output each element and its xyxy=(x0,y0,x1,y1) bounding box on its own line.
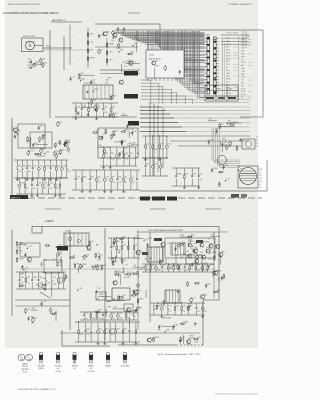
svg-text:C77: C77 xyxy=(135,236,138,238)
svg-text:T53: T53 xyxy=(114,261,117,263)
svg-text:D21: D21 xyxy=(154,163,157,165)
svg-text:C95: C95 xyxy=(158,260,161,262)
svg-text:IC201: IC201 xyxy=(149,55,154,57)
svg-text:Q74: Q74 xyxy=(109,60,112,62)
svg-text:L48: L48 xyxy=(134,43,137,45)
svg-text:Q92: Q92 xyxy=(136,307,139,309)
svg-text:D33: D33 xyxy=(90,50,93,52)
svg-text:C47: C47 xyxy=(195,249,198,251)
svg-text:R92: R92 xyxy=(105,328,108,330)
svg-text:L15: L15 xyxy=(97,106,100,108)
svg-text:0.047: 0.047 xyxy=(32,66,36,68)
svg-text:D51: D51 xyxy=(135,312,138,314)
svg-text:NOTE : markings of printed bo: NOTE : markings of printed boards : "MF-… xyxy=(158,353,201,356)
svg-text:DET: DET xyxy=(241,48,244,50)
svg-text:C52: C52 xyxy=(146,143,149,145)
svg-text:R9: R9 xyxy=(139,250,141,252)
svg-text:330: 330 xyxy=(215,133,218,135)
svg-text:L87: L87 xyxy=(122,113,125,115)
svg-text:2SC2458: 2SC2458 xyxy=(37,366,44,368)
svg-text:R72: R72 xyxy=(99,328,102,330)
svg-text:C58: C58 xyxy=(103,134,106,136)
svg-text:C58: C58 xyxy=(79,288,82,290)
svg-text:T15: T15 xyxy=(206,247,209,249)
svg-text:T57: T57 xyxy=(115,113,118,115)
svg-text:220: 220 xyxy=(49,188,52,190)
svg-text:L15: L15 xyxy=(24,245,27,247)
svg-text:D52: D52 xyxy=(122,272,125,274)
svg-text:T81: T81 xyxy=(121,152,124,154)
svg-text:D32: D32 xyxy=(123,244,126,246)
svg-text:L6: L6 xyxy=(44,134,46,136)
svg-text:C21: C21 xyxy=(83,264,86,266)
svg-text:VR16: VR16 xyxy=(112,95,117,97)
svg-text:47u: 47u xyxy=(187,344,190,346)
svg-text:L88: L88 xyxy=(228,121,231,123)
svg-text:T26: T26 xyxy=(114,258,117,260)
svg-text:L23: L23 xyxy=(163,305,166,307)
svg-text:E/F: E/F xyxy=(90,368,93,370)
svg-text:R89: R89 xyxy=(191,235,194,237)
svg-text:VR55: VR55 xyxy=(45,165,50,167)
svg-text:T66: T66 xyxy=(124,328,127,330)
svg-text:D37: D37 xyxy=(103,265,106,267)
svg-text:MODEL JN-S7000M MUSIC CENTER: MODEL JN-S7000M MUSIC CENTER xyxy=(8,4,41,6)
svg-text:0.047: 0.047 xyxy=(98,318,102,320)
svg-text:MAIN P.C.B: MAIN P.C.B xyxy=(11,196,21,199)
svg-text:D60: D60 xyxy=(123,260,126,262)
svg-text:Q47: Q47 xyxy=(59,277,62,279)
svg-text:0.01: 0.01 xyxy=(161,247,164,249)
svg-text:L42: L42 xyxy=(124,176,127,178)
svg-text:0.01: 0.01 xyxy=(59,283,62,285)
svg-text:VR14: VR14 xyxy=(124,129,128,131)
svg-text:0.047: 0.047 xyxy=(26,142,30,144)
svg-text:12V: 12V xyxy=(259,178,262,180)
svg-text:Q77: Q77 xyxy=(156,247,159,249)
svg-text:C93: C93 xyxy=(58,262,61,264)
svg-text:Q3: Q3 xyxy=(199,173,201,175)
svg-text:T87: T87 xyxy=(100,49,103,51)
svg-text:T33: T33 xyxy=(27,309,30,311)
svg-text:C76: C76 xyxy=(193,253,196,255)
svg-text:C12: C12 xyxy=(36,62,39,64)
svg-text:D61: D61 xyxy=(120,50,123,52)
svg-text:VR93: VR93 xyxy=(51,165,56,167)
svg-text:CN201: CN201 xyxy=(205,35,210,37)
svg-text:Q11: Q11 xyxy=(56,151,59,153)
svg-text:0.01: 0.01 xyxy=(157,330,160,332)
svg-text:R7: R7 xyxy=(134,265,136,267)
svg-text:C89: C89 xyxy=(98,145,101,147)
svg-text:MHz: MHz xyxy=(28,65,32,67)
svg-text:T29: T29 xyxy=(182,242,185,244)
svg-text:T44: T44 xyxy=(130,129,133,131)
svg-text:D80: D80 xyxy=(39,277,42,279)
svg-text:C82: C82 xyxy=(42,58,45,60)
svg-text:T81: T81 xyxy=(136,153,139,155)
svg-text:L75: L75 xyxy=(90,42,93,44)
svg-text:D37: D37 xyxy=(123,140,126,142)
svg-text:AN7145M: AN7145M xyxy=(163,317,171,320)
svg-text:C12: C12 xyxy=(155,305,158,307)
svg-text:L98: L98 xyxy=(38,182,41,184)
svg-text:R30: R30 xyxy=(132,143,135,145)
svg-text:T57: T57 xyxy=(144,259,147,261)
svg-text:● MD-5: ● MD-5 xyxy=(45,219,54,223)
svg-text:C56: C56 xyxy=(76,263,79,265)
svg-text:R49: R49 xyxy=(139,269,142,271)
svg-text:D11: D11 xyxy=(53,277,56,279)
svg-text:T60: T60 xyxy=(90,34,93,36)
svg-text:Q84: Q84 xyxy=(180,235,183,237)
svg-text:VR97: VR97 xyxy=(139,299,144,301)
svg-text:100: 100 xyxy=(56,188,59,190)
svg-text:2SC1815: 2SC1815 xyxy=(54,366,61,368)
svg-text:0.01: 0.01 xyxy=(132,182,135,184)
svg-text:L49: L49 xyxy=(34,165,37,167)
svg-text:C69: C69 xyxy=(144,239,147,241)
svg-text:VR92: VR92 xyxy=(63,165,68,167)
svg-text:VR29: VR29 xyxy=(193,243,198,245)
svg-text:220: 220 xyxy=(124,182,127,184)
svg-text:0.01: 0.01 xyxy=(20,283,23,285)
svg-text:D14: D14 xyxy=(204,294,207,296)
svg-text:L72: L72 xyxy=(155,61,158,63)
svg-text:L88: L88 xyxy=(91,241,94,243)
svg-text:Q40: Q40 xyxy=(207,283,210,285)
svg-text:R25: R25 xyxy=(217,290,220,292)
svg-text:D62: D62 xyxy=(227,178,230,180)
svg-text:L23: L23 xyxy=(85,312,88,314)
svg-text:VR88: VR88 xyxy=(184,322,189,324)
svg-text:0.01: 0.01 xyxy=(27,283,30,285)
svg-text:D72: D72 xyxy=(168,143,171,145)
svg-text:Q68: Q68 xyxy=(104,312,107,314)
svg-text:SCHEMATIC DIAGRAM 2/2: SCHEMATIC DIAGRAM 2/2 xyxy=(229,3,253,6)
svg-text:C81: C81 xyxy=(57,165,60,167)
svg-text:R29: R29 xyxy=(189,305,192,307)
svg-text:R18: R18 xyxy=(108,78,111,80)
svg-text:VR78: VR78 xyxy=(222,138,227,140)
svg-text:DTC114ES: DTC114ES xyxy=(121,366,130,368)
svg-text:R9: R9 xyxy=(112,176,114,178)
svg-text:C20: C20 xyxy=(192,298,195,300)
svg-text:D42: D42 xyxy=(115,131,118,133)
svg-text:C54: C54 xyxy=(209,243,212,245)
svg-text:C46: C46 xyxy=(93,100,96,102)
svg-text:47u: 47u xyxy=(169,311,172,313)
svg-text:VR65: VR65 xyxy=(212,252,217,254)
svg-text:D99: D99 xyxy=(98,310,101,312)
svg-text:R94: R94 xyxy=(20,277,23,279)
svg-text:C74: C74 xyxy=(126,272,129,274)
svg-text:220: 220 xyxy=(125,148,128,150)
svg-text:Q46: Q46 xyxy=(223,142,226,144)
svg-text:T99: T99 xyxy=(123,236,126,238)
svg-text:R89: R89 xyxy=(83,176,86,178)
svg-text:C21: C21 xyxy=(104,106,107,108)
svg-text:T46: T46 xyxy=(118,176,121,178)
svg-text:L79: L79 xyxy=(169,305,172,307)
svg-text:47u: 47u xyxy=(118,159,121,161)
svg-text:CN2: CN2 xyxy=(247,36,250,38)
svg-text:C39: C39 xyxy=(19,251,22,253)
svg-text:R3: R3 xyxy=(180,264,182,266)
svg-text:(MF-870RC-1): (MF-870RC-1) xyxy=(52,20,66,22)
svg-text:VR95: VR95 xyxy=(99,294,104,296)
svg-text:C27: C27 xyxy=(92,80,95,82)
svg-text:D48: D48 xyxy=(18,165,21,167)
svg-text:L47: L47 xyxy=(221,123,224,125)
svg-text:IC301: IC301 xyxy=(65,231,70,233)
svg-text:VR1: VR1 xyxy=(169,264,173,266)
svg-text:D48: D48 xyxy=(112,298,115,300)
svg-text:330: 330 xyxy=(83,259,86,261)
svg-text:D41: D41 xyxy=(138,290,141,292)
svg-text:0.047: 0.047 xyxy=(111,159,115,161)
svg-text:M1: M1 xyxy=(259,184,261,186)
svg-text:R53: R53 xyxy=(128,124,131,126)
svg-text:R98: R98 xyxy=(182,305,185,307)
svg-text:C97: C97 xyxy=(77,176,80,178)
svg-text:Q36: Q36 xyxy=(125,153,128,155)
svg-text:R62: R62 xyxy=(163,264,166,266)
svg-text:D29: D29 xyxy=(118,153,121,155)
svg-text:47u: 47u xyxy=(212,275,215,277)
svg-text:D10: D10 xyxy=(17,130,20,132)
svg-text:VR60: VR60 xyxy=(177,173,182,175)
svg-text:C18: C18 xyxy=(104,153,107,155)
svg-text:Q69: Q69 xyxy=(42,149,45,151)
svg-text:D84: D84 xyxy=(44,63,47,65)
svg-text:GR/BL: GR/BL xyxy=(38,368,43,370)
svg-text:● FM MODULATOR AMP SYSTEM CMC-: ● FM MODULATOR AMP SYSTEM CMC-5 xyxy=(3,11,59,15)
svg-text:C22: C22 xyxy=(34,318,37,320)
svg-text:Q43: Q43 xyxy=(176,245,179,247)
svg-text:R67: R67 xyxy=(116,328,119,330)
svg-text:T4: T4 xyxy=(132,176,134,178)
svg-text:Q13: Q13 xyxy=(225,165,228,167)
svg-text:Q60: Q60 xyxy=(46,151,49,153)
svg-text:VR52: VR52 xyxy=(155,337,160,339)
svg-text:R72: R72 xyxy=(56,143,59,145)
svg-text:Q13: Q13 xyxy=(117,271,120,273)
svg-text:Q50: Q50 xyxy=(151,338,154,340)
svg-text:D54: D54 xyxy=(240,168,243,170)
svg-text:VR90: VR90 xyxy=(189,336,194,338)
svg-text:47u: 47u xyxy=(28,171,31,173)
svg-text:MIC MPX OSC: MIC MPX OSC xyxy=(23,36,36,38)
svg-text:Q63: Q63 xyxy=(112,312,115,314)
svg-text:R6: R6 xyxy=(73,255,75,257)
svg-text:T20: T20 xyxy=(209,119,212,121)
svg-text:VR97: VR97 xyxy=(90,58,95,60)
svg-text:R75: R75 xyxy=(62,150,65,152)
svg-text:R36: R36 xyxy=(180,257,183,259)
svg-text:R79: R79 xyxy=(59,122,62,124)
svg-text:0.047: 0.047 xyxy=(203,270,207,272)
svg-text:VR92: VR92 xyxy=(98,312,103,314)
svg-text:VR60: VR60 xyxy=(213,168,218,170)
svg-text:Q66: Q66 xyxy=(119,312,122,314)
svg-text:Downloaded from www.serviceman: Downloaded from www.servicemanuals.compa… xyxy=(215,394,258,396)
svg-text:R1: R1 xyxy=(41,137,43,139)
svg-text:D76: D76 xyxy=(135,244,138,246)
svg-text:T26: T26 xyxy=(89,106,92,108)
svg-text:C62: C62 xyxy=(28,165,31,167)
svg-text:T7: T7 xyxy=(160,325,162,327)
svg-text:(TO-92): (TO-92) xyxy=(55,371,61,373)
svg-text:Q28: Q28 xyxy=(203,264,206,266)
svg-text:C30: C30 xyxy=(133,131,136,133)
svg-text:100: 100 xyxy=(182,311,185,313)
svg-text:330: 330 xyxy=(77,269,80,271)
svg-text:D77: D77 xyxy=(185,173,188,175)
svg-text:R39: R39 xyxy=(27,277,30,279)
svg-text:L20: L20 xyxy=(97,253,100,255)
svg-text:2SD880: 2SD880 xyxy=(105,366,111,368)
svg-text:L95: L95 xyxy=(125,264,128,266)
svg-text:220: 220 xyxy=(112,318,115,320)
svg-text:C64: C64 xyxy=(77,106,80,108)
svg-text:Q42: Q42 xyxy=(86,328,89,330)
svg-text:T8: T8 xyxy=(186,264,188,266)
svg-text:R45: R45 xyxy=(91,176,94,178)
svg-text:C35: C35 xyxy=(190,264,193,266)
svg-text:R25: R25 xyxy=(131,52,134,54)
svg-text:L74: L74 xyxy=(112,106,115,108)
svg-text:DET: DET xyxy=(241,83,244,85)
svg-text:47u: 47u xyxy=(186,270,189,272)
svg-text:L79: L79 xyxy=(200,252,203,254)
svg-text:VR40: VR40 xyxy=(217,271,222,273)
svg-text:C15: C15 xyxy=(72,76,75,78)
svg-text:R12: R12 xyxy=(111,153,114,155)
svg-text:(TO-92L): (TO-92L) xyxy=(88,371,95,373)
svg-text:D61: D61 xyxy=(136,272,139,274)
svg-text:OFF: OFF xyxy=(229,89,232,91)
svg-text:D48: D48 xyxy=(82,106,85,108)
svg-text:T49: T49 xyxy=(167,243,170,245)
svg-text:VR74: VR74 xyxy=(198,255,203,257)
svg-text:100: 100 xyxy=(18,171,21,173)
svg-text:L81: L81 xyxy=(186,251,189,253)
svg-text:DET: DET xyxy=(241,51,244,53)
svg-text:P201 TO TUNER: P201 TO TUNER xyxy=(226,33,239,35)
svg-text:T78: T78 xyxy=(97,288,100,290)
svg-text:B+: B+ xyxy=(226,67,228,69)
svg-text:T26: T26 xyxy=(20,273,23,275)
svg-text:Q20: Q20 xyxy=(44,182,47,184)
svg-text:C9: C9 xyxy=(100,255,102,257)
svg-text:D97: D97 xyxy=(53,284,56,286)
svg-text:R24: R24 xyxy=(183,253,186,255)
svg-text:VR49: VR49 xyxy=(109,44,114,46)
svg-text:220: 220 xyxy=(191,249,194,251)
svg-text:2SA733: 2SA733 xyxy=(22,363,28,366)
svg-text:T66: T66 xyxy=(222,251,225,253)
svg-text:JN-S7000M / MF-870RC SCHEMATI: JN-S7000M / MF-870RC SCHEMATIC 11-17 xyxy=(18,388,56,391)
svg-text:100: 100 xyxy=(111,41,114,43)
svg-text:0.01: 0.01 xyxy=(127,318,130,320)
svg-text:C98: C98 xyxy=(49,182,52,184)
svg-text:L87: L87 xyxy=(193,173,196,175)
svg-text:D24: D24 xyxy=(67,140,70,142)
svg-text:T92: T92 xyxy=(197,264,200,266)
svg-text:C97: C97 xyxy=(43,302,46,304)
svg-text:P101: P101 xyxy=(46,46,50,48)
svg-text:R41: R41 xyxy=(166,330,169,332)
svg-text:VR71: VR71 xyxy=(29,151,34,153)
svg-text:100: 100 xyxy=(26,188,29,190)
svg-text:L43: L43 xyxy=(122,62,125,64)
svg-text:C14: C14 xyxy=(109,52,112,54)
svg-text:C13: C13 xyxy=(135,289,138,291)
svg-text:100: 100 xyxy=(68,171,71,173)
svg-text:IC601 TDA2611A AM/FM TUNER A: IC601 TDA2611A AM/FM TUNER AMP SW601 xyxy=(148,229,183,232)
svg-text:47u: 47u xyxy=(87,250,90,252)
svg-text:Q78: Q78 xyxy=(64,277,67,279)
svg-text:C51: C51 xyxy=(40,165,43,167)
svg-text:D94: D94 xyxy=(57,154,60,156)
svg-text:R93: R93 xyxy=(86,254,89,256)
svg-text:Q56: Q56 xyxy=(228,145,231,147)
svg-text:C66: C66 xyxy=(176,305,179,307)
svg-text:Q6: Q6 xyxy=(130,153,132,155)
svg-text:VR51: VR51 xyxy=(58,254,63,256)
svg-text:Q22: Q22 xyxy=(152,264,155,266)
svg-text:R99: R99 xyxy=(94,89,97,91)
svg-text:SW: SW xyxy=(207,89,210,91)
svg-text:Q49: Q49 xyxy=(113,307,116,309)
svg-text:T4: T4 xyxy=(161,163,163,165)
svg-text:C18: C18 xyxy=(127,312,130,314)
svg-text:L72: L72 xyxy=(208,264,211,266)
svg-text:Q57: Q57 xyxy=(23,165,26,167)
svg-text:D66: D66 xyxy=(98,266,101,268)
svg-text:R64: R64 xyxy=(82,79,85,81)
svg-text:Q86: Q86 xyxy=(175,324,178,326)
svg-text:L24: L24 xyxy=(96,130,99,132)
svg-text:VR31: VR31 xyxy=(19,259,24,261)
svg-text:T56: T56 xyxy=(188,244,191,246)
svg-text:VR89: VR89 xyxy=(115,241,120,243)
svg-text:220: 220 xyxy=(199,179,202,181)
svg-text:T56: T56 xyxy=(97,176,100,178)
svg-text:47u: 47u xyxy=(85,318,88,320)
svg-text:2SD438: 2SD438 xyxy=(71,366,77,368)
svg-text:C1: C1 xyxy=(28,68,30,70)
svg-text:VR36: VR36 xyxy=(43,259,48,261)
svg-text:100: 100 xyxy=(86,334,89,336)
svg-text:R35: R35 xyxy=(161,260,164,262)
svg-text:Q52: Q52 xyxy=(174,264,177,266)
svg-text:2SC945: 2SC945 xyxy=(22,366,28,368)
svg-text:C19: C19 xyxy=(208,259,211,261)
svg-text:D5: D5 xyxy=(114,36,116,38)
svg-text:D97: D97 xyxy=(161,143,164,145)
svg-text:C95: C95 xyxy=(105,176,108,178)
svg-text:VR8: VR8 xyxy=(107,306,111,308)
svg-text:T40: T40 xyxy=(32,308,35,310)
svg-text:Q40: Q40 xyxy=(80,73,83,75)
svg-text:L35: L35 xyxy=(146,163,149,165)
svg-text:C52: C52 xyxy=(122,295,125,297)
svg-text:Q36: Q36 xyxy=(33,277,36,279)
svg-text:100: 100 xyxy=(29,140,32,142)
svg-text:VR62: VR62 xyxy=(20,182,25,184)
